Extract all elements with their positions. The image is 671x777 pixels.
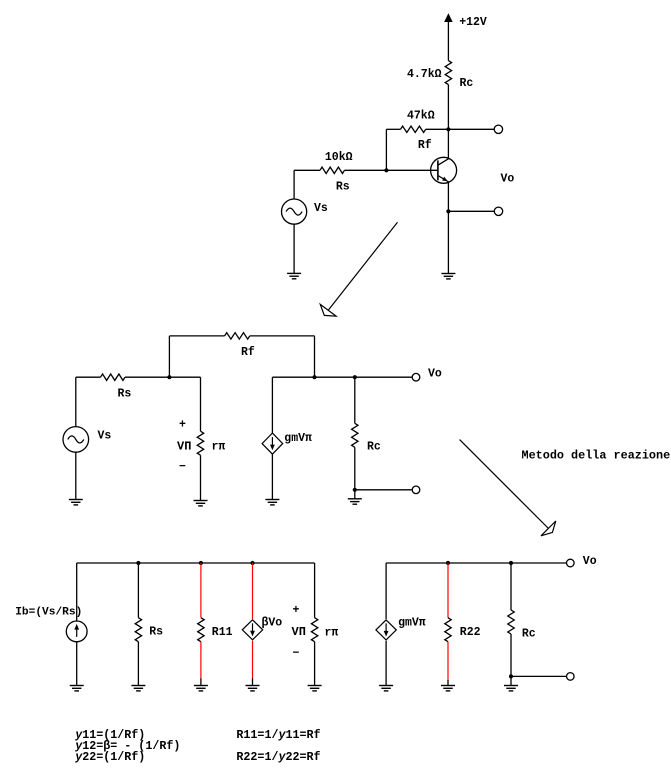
wire node to output terminal [448, 128, 494, 130]
arrowhead top-to-middle [320, 304, 336, 316]
ground (Rc bottom-right) [504, 686, 518, 691]
svg-text:Rf: Rf [241, 346, 255, 359]
wire emitter down [447, 182, 449, 274]
wire R11 bottom (red) [200, 642, 202, 679]
resistor Rs (top) [320, 167, 345, 173]
svg-text:Rs: Rs [149, 626, 163, 639]
svg-text:10kΩ: 10kΩ [325, 151, 353, 164]
ground (middle Vs) [69, 500, 83, 505]
wire gm branch top (middle) [272, 377, 314, 433]
svg-text:Vs: Vs [98, 429, 112, 442]
svg-text:Rf: Rf [418, 139, 432, 152]
ground (Rs bottom-left) [131, 686, 145, 691]
wire Rf top left segment (middle) [169, 335, 224, 337]
ground (rπ bottom-left) [308, 686, 322, 691]
wire Rs top (bottom-left) [137, 563, 139, 618]
svg-text:R11=1/y11=Rf: R11=1/y11=Rf [236, 728, 320, 742]
source gmVπ (bottom-right) [376, 620, 396, 640]
terminal Vo (middle) [412, 373, 420, 381]
ground (βVo) [246, 686, 260, 691]
wire collector up [447, 129, 449, 159]
resistor Rc (middle) [352, 423, 358, 447]
node Rc bottom (bottom-right) [509, 674, 513, 678]
svg-text:Vo: Vo [583, 555, 597, 568]
wire R11 ground stub [200, 678, 202, 685]
svg-text:VΠ: VΠ [292, 625, 306, 639]
wire Vs top (middle) [76, 377, 101, 427]
wire node to rπ branch [169, 377, 200, 431]
ground (top emitter) [441, 274, 455, 279]
svg-text:Rc: Rc [460, 77, 474, 90]
wire Rc bottom (bottom-right) [510, 634, 512, 676]
svg-text:−: − [179, 461, 186, 474]
terminal ref (bottom-right) [567, 673, 575, 681]
node Rc top (bottom-right) [509, 561, 513, 565]
svg-text:+: + [179, 418, 186, 431]
svg-text:Vo: Vo [501, 172, 515, 185]
arrowhead middle-to-bottom [541, 521, 556, 536]
svg-text:VΠ: VΠ [177, 440, 191, 454]
wire Rf down to base node [385, 129, 387, 170]
wire emitter node to terminal [448, 210, 494, 212]
wire gm top (bottom-right) [385, 563, 387, 619]
wire βVo bottom (red) [252, 641, 254, 678]
transistor Q1 [431, 157, 457, 183]
source Vs (middle) [63, 427, 89, 453]
wire R22 top (red) [447, 563, 449, 618]
power +12V arrow [444, 13, 453, 60]
svg-text:R22: R22 [460, 626, 481, 639]
svg-text:+: + [293, 604, 300, 617]
resistor rπ (middle) [197, 431, 203, 455]
svg-text:Vs: Vs [314, 202, 328, 215]
svg-text:Rc: Rc [522, 628, 536, 641]
wire Rc top (middle) [354, 377, 356, 423]
wire Vs to Rs [294, 170, 320, 199]
wire rπ to ground [200, 455, 202, 500]
terminal Vo+ (top) [494, 125, 502, 133]
wire top rail (bottom-right) [386, 562, 566, 564]
wire Rs to base node [345, 169, 387, 171]
wire gm to ground (middle) [271, 454, 273, 499]
wire Rs bottom (bottom-left) [137, 642, 139, 686]
node Rc top (middle) [353, 375, 357, 379]
ground (gm bottom-right) [379, 686, 393, 691]
arrow line middle-to-bottom [460, 440, 549, 529]
ground (R11) [194, 686, 208, 691]
wire R11 top (red) [200, 563, 202, 618]
svg-text:+12V: +12V [459, 16, 487, 29]
wire Rf right drop (middle) [314, 336, 316, 377]
wire Rf left segment [386, 128, 400, 130]
svg-text:βVo: βVo [262, 617, 283, 630]
svg-text:rπ: rπ [325, 627, 339, 640]
svg-text:Metodo della reazione: Metodo della reazione [522, 448, 671, 462]
ground (top Vs) [287, 273, 301, 278]
wire Ib bottom [76, 642, 78, 686]
ground (Ib) [70, 686, 84, 691]
ground (middle Rc) [348, 499, 362, 504]
terminal ref (middle) [412, 486, 420, 494]
ground (middle rπ) [194, 501, 208, 506]
resistor rπ (bottom-left) [311, 618, 317, 642]
source Vs (top) [282, 199, 307, 224]
source Ib [66, 621, 87, 642]
wire Rf top right segment (middle) [250, 335, 315, 337]
ground (R22) [441, 686, 455, 691]
wire βVo ground stub [252, 678, 254, 685]
svg-text:Vo: Vo [428, 367, 442, 380]
resistor Rc (bottom-right) [508, 610, 514, 634]
wire βVo top (red) [252, 563, 254, 619]
node Rc bottom (middle) [353, 488, 357, 492]
source βVo [242, 620, 262, 640]
wire rπ bottom (bottom-left) [314, 642, 316, 686]
svg-text:Rs: Rs [118, 388, 132, 401]
wire Rc top (bottom-right) [510, 563, 512, 610]
wire bottom to terminal (bottom-right) [511, 675, 567, 677]
wire R22 ground stub [447, 680, 449, 686]
svg-text:y22=(1/Rf): y22=(1/Rf) [74, 750, 145, 764]
wire R22 bottom (red) [447, 642, 449, 680]
svg-text:−: − [293, 647, 300, 660]
wire Rc node to ground (middle) [354, 490, 356, 499]
wire bottom to terminal (middle) [355, 489, 412, 491]
svg-text:gmVπ: gmVπ [284, 432, 312, 445]
wire Rc node to ground (bottom-right) [510, 676, 512, 685]
terminal Vo- (top) [494, 207, 502, 215]
resistor R22 [445, 618, 451, 642]
terminal Vo (bottom-right) [567, 559, 575, 567]
node emitter junction [446, 209, 450, 213]
wire Rs to node (middle) [125, 376, 169, 378]
svg-text:47kΩ: 47kΩ [407, 109, 435, 122]
wire rπ top (bottom-left) [314, 563, 316, 618]
resistor R11 [198, 618, 204, 642]
svg-text:Ib=(Vs/Rs): Ib=(Vs/Rs) [15, 607, 82, 619]
resistor Rc (top) [445, 61, 451, 85]
wire Rf right segment [426, 128, 449, 130]
resistor Rs (bottom-left) [135, 618, 141, 642]
arrow line top-to-middle [328, 222, 397, 310]
svg-text:4.7kΩ: 4.7kΩ [407, 68, 442, 81]
node R11 top (bottom-left) [199, 561, 203, 565]
wire base node to transistor [386, 169, 438, 171]
wire Rc bottom (middle) [354, 447, 356, 490]
node Rs top (bottom-left) [136, 561, 140, 565]
resistor Rf (middle) [225, 333, 250, 339]
resistor Rf (top) [401, 126, 426, 132]
svg-text:Rs: Rs [336, 181, 350, 194]
wire Rc to collector node [447, 85, 449, 130]
resistor Rs (middle) [101, 374, 126, 380]
svg-text:rπ: rπ [212, 441, 226, 454]
wire Ib top [76, 563, 78, 621]
svg-text:R11: R11 [212, 626, 233, 639]
wire gm bottom (bottom-right) [385, 641, 387, 686]
node R22 top [446, 561, 450, 565]
svg-text:Rc: Rc [367, 441, 381, 454]
node βVo top (bottom-left) [250, 561, 254, 565]
wire top rail (bottom-left) [77, 562, 315, 564]
source gmVπ (middle) [262, 433, 283, 454]
wire Rf left drop (middle) [168, 336, 170, 377]
wire Vs to ground [293, 224, 295, 273]
svg-text:gmVπ: gmVπ [398, 617, 426, 630]
wire Vs to ground (middle) [75, 452, 77, 499]
node Rf join (middle) [312, 375, 316, 379]
node base junction [384, 168, 388, 172]
node input (middle) [167, 375, 171, 379]
node collector junction [446, 127, 450, 131]
wire to Rc and terminal (middle) [315, 376, 413, 378]
svg-text:R22=1/y22=Rf: R22=1/y22=Rf [236, 750, 320, 764]
ground (middle gm) [265, 500, 279, 505]
